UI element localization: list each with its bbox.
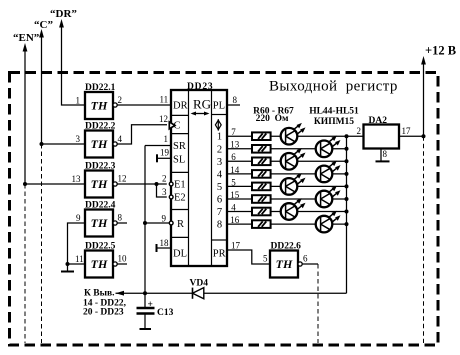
wire DD22.4 pin9 down to DD22.5 pin11: [68, 223, 86, 264]
node E1/E2 tie: [155, 182, 159, 186]
svg-text:PR: PR: [213, 249, 226, 260]
wire row3: [227, 160, 347, 162]
svg-text:7: 7: [231, 127, 236, 137]
resistor R60: [252, 132, 271, 140]
svg-text:16: 16: [230, 215, 240, 225]
arrow to K Vyv: [116, 291, 125, 296]
svg-text:6: 6: [217, 195, 222, 206]
svg-text:13: 13: [72, 174, 82, 184]
wire DA2 pin8: [380, 149, 382, 162]
wire EN vertical: [24, 50, 26, 184]
wire C vertical: [41, 36, 43, 144]
svg-text:E1: E1: [174, 180, 186, 191]
wire DD22.1 pin2 to DD23 DR pin11: [117, 104, 171, 106]
svg-text:TH: TH: [91, 216, 108, 230]
svg-text:4: 4: [118, 134, 123, 144]
node bus row6: [345, 197, 349, 201]
svg-text:1: 1: [217, 132, 222, 143]
svg-text:5: 5: [231, 177, 236, 187]
node bus row2: [345, 147, 349, 151]
svg-text:14: 14: [230, 165, 240, 175]
svg-text:15: 15: [230, 190, 240, 200]
ground DA2 pin8: [376, 160, 390, 162]
svg-text:8: 8: [383, 149, 388, 159]
svg-text:9: 9: [76, 213, 81, 223]
LED common bus vertical: [346, 136, 348, 293]
flip-flop DD22.1: [85, 83, 117, 119]
svg-text:12: 12: [118, 174, 127, 184]
wire C to DD22.2 pin 3: [42, 143, 86, 145]
outer dashed module border: [10, 73, 439, 346]
svg-text:TH: TH: [276, 257, 293, 271]
svg-text:9: 9: [162, 214, 167, 224]
wire stub DD22.4 pin8: [117, 222, 127, 224]
flip-flop DD22.6: [270, 242, 302, 278]
bidirectional arrow in RG column: [193, 113, 208, 115]
svg-text:3: 3: [76, 134, 81, 144]
svg-text:Выходной регистр: Выходной регистр: [269, 79, 398, 95]
inversion bubble pin E1: [169, 182, 173, 186]
resistor R66: [252, 208, 271, 216]
dashed continuation of EN line: [24, 184, 26, 343]
flip-flop DD22.4: [85, 201, 117, 237]
stub PL pin8: [227, 104, 240, 106]
flip-flop DD22.3: [85, 162, 117, 198]
svg-text:VD4: VD4: [190, 279, 209, 289]
svg-text:4: 4: [231, 202, 236, 212]
node bus row8: [345, 222, 349, 226]
three-state diamond symbol: [217, 119, 219, 130]
svg-text:4: 4: [217, 169, 223, 180]
ground stub of DD22.4/DD22.5: [67, 264, 69, 272]
wire row8: [227, 223, 347, 225]
svg-text:R: R: [177, 219, 184, 230]
svg-text:5: 5: [263, 254, 268, 264]
signal arrow DR: [59, 19, 64, 28]
svg-text:КИПМ15: КИПМ15: [314, 117, 354, 127]
node C junction: [40, 142, 44, 146]
node C13 junction: [143, 291, 147, 295]
svg-text:TH: TH: [91, 137, 108, 151]
power arrow +12V: [421, 56, 426, 65]
svg-text:2: 2: [162, 174, 167, 184]
svg-text:8: 8: [118, 213, 123, 223]
svg-text:TH: TH: [91, 98, 108, 112]
resistor R67: [252, 220, 271, 228]
node +12V / DA2 pin17 junction: [422, 134, 426, 138]
wire row2: [227, 148, 347, 150]
svg-text:2: 2: [217, 144, 222, 155]
svg-text:11: 11: [160, 95, 169, 105]
svg-text:+12 В: +12 В: [425, 44, 456, 58]
svg-text:6: 6: [231, 152, 236, 162]
signal arrow EN: [23, 43, 28, 52]
wire row5: [227, 185, 347, 187]
LED HL47: [316, 161, 341, 183]
flip-flop DD22.5: [85, 242, 117, 278]
node bus row4: [345, 172, 349, 176]
svg-text:+: +: [148, 300, 153, 310]
svg-text:8: 8: [233, 95, 238, 105]
dashed continuation below +12V node: [423, 136, 425, 343]
LED HL46: [281, 148, 306, 170]
LED HL48: [281, 173, 306, 195]
svg-text:C13: C13: [157, 308, 174, 318]
svg-text:13: 13: [230, 140, 240, 150]
LED HL51: [316, 211, 341, 233]
wire +12V vertical: [423, 63, 425, 136]
LED HL44: [281, 123, 306, 145]
capacitor C13: [137, 293, 174, 329]
svg-text:3: 3: [162, 187, 167, 197]
wire DD22.3 pin12 to DD23 E1 pin2: [117, 183, 167, 185]
wire DD22.2 pin4 to DD23 C pin12: [117, 125, 167, 144]
svg-text:6: 6: [303, 254, 308, 264]
diode VD4: [190, 279, 209, 299]
svg-text:SL: SL: [173, 155, 185, 166]
wire bus to DA2 pin2: [347, 135, 364, 137]
dashed continuation DD22.6 output: [317, 264, 319, 343]
svg-text:TH: TH: [91, 257, 108, 271]
signal arrow C: [39, 29, 44, 38]
svg-text:DR: DR: [173, 101, 188, 112]
terminated stub SL pin19: [157, 157, 171, 159]
wire SR pin1: [145, 145, 171, 147]
ground C13: [140, 328, 152, 330]
svg-text:HL44-HL51: HL44-HL51: [309, 107, 359, 117]
LED HL49: [316, 186, 341, 208]
register DD23: [169, 82, 227, 266]
wire row1: [227, 135, 347, 137]
wire branch to E2 pin3: [157, 184, 167, 197]
svg-text:5: 5: [217, 182, 222, 193]
LED HL45: [316, 136, 341, 158]
svg-text:220 Ом: 220 Ом: [256, 114, 289, 124]
wire DA2 pin17 to +12V node: [399, 135, 424, 137]
flip-flop DD22.2: [85, 122, 117, 158]
svg-text:RG: RG: [193, 97, 211, 112]
node EN junction: [23, 182, 27, 186]
wire DR vertical and to DD22.1 pin 1: [62, 26, 86, 105]
wire row7: [227, 211, 347, 213]
svg-text:1: 1: [76, 96, 81, 106]
svg-text:PL: PL: [213, 101, 225, 112]
dashed continuation of C line: [41, 144, 43, 343]
svg-text:10: 10: [118, 254, 128, 264]
resistor R64: [252, 183, 271, 191]
voltage regulator DA2: [364, 116, 400, 149]
LED HL50: [281, 198, 306, 220]
svg-text:11: 11: [75, 254, 84, 264]
wire row4: [227, 173, 347, 175]
net SR/R/reset vertical wire: [144, 146, 146, 294]
wire row6: [227, 198, 347, 200]
dynamic clock input triangle pin C: [169, 122, 175, 129]
wire R pin9: [145, 222, 170, 224]
bottom common wire: [116, 292, 347, 294]
svg-text:К Выв.: К Выв.: [84, 289, 115, 299]
resistor R63: [252, 170, 271, 178]
svg-text:19: 19: [160, 148, 170, 158]
svg-text:12: 12: [159, 114, 168, 124]
svg-text:3: 3: [217, 157, 222, 168]
svg-text:17: 17: [231, 240, 241, 250]
node bus row5: [345, 184, 349, 188]
svg-text:2: 2: [357, 126, 362, 136]
inversion bubble pin R: [169, 221, 173, 225]
svg-text:17: 17: [402, 126, 412, 136]
svg-text:2: 2: [118, 95, 123, 105]
inversion bubble pin E2: [169, 195, 173, 199]
wire stub DD22.5 pin10: [117, 263, 127, 265]
wire PR pin17 to DD22.6 pin5: [227, 250, 270, 264]
node bus row3: [345, 159, 349, 163]
svg-text:“C”: “C”: [34, 19, 53, 31]
svg-text:20 - DD23: 20 - DD23: [83, 308, 124, 318]
svg-text:SR: SR: [173, 141, 186, 152]
node R junction: [143, 221, 147, 225]
svg-text:“EN”: “EN”: [13, 32, 39, 44]
svg-text:1: 1: [164, 134, 169, 144]
resistor R61: [252, 145, 271, 153]
svg-text:DL: DL: [173, 249, 187, 260]
svg-text:“DR”: “DR”: [50, 8, 77, 20]
node bus row1: [345, 134, 349, 138]
svg-text:7: 7: [217, 207, 222, 218]
svg-text:E2: E2: [174, 193, 186, 204]
wire DD22.6 pin6: [302, 263, 318, 265]
node tie DD22.4/DD22.5: [66, 262, 70, 266]
svg-text:18: 18: [160, 238, 170, 248]
resistor R65: [252, 195, 271, 203]
wire EN to DD22.3 pin 13: [25, 183, 85, 185]
svg-text:TH: TH: [91, 177, 108, 191]
node bus row7: [345, 210, 349, 214]
svg-text:8: 8: [217, 220, 222, 231]
resistor R62: [252, 158, 271, 166]
terminated stub DL pin18: [157, 247, 172, 249]
